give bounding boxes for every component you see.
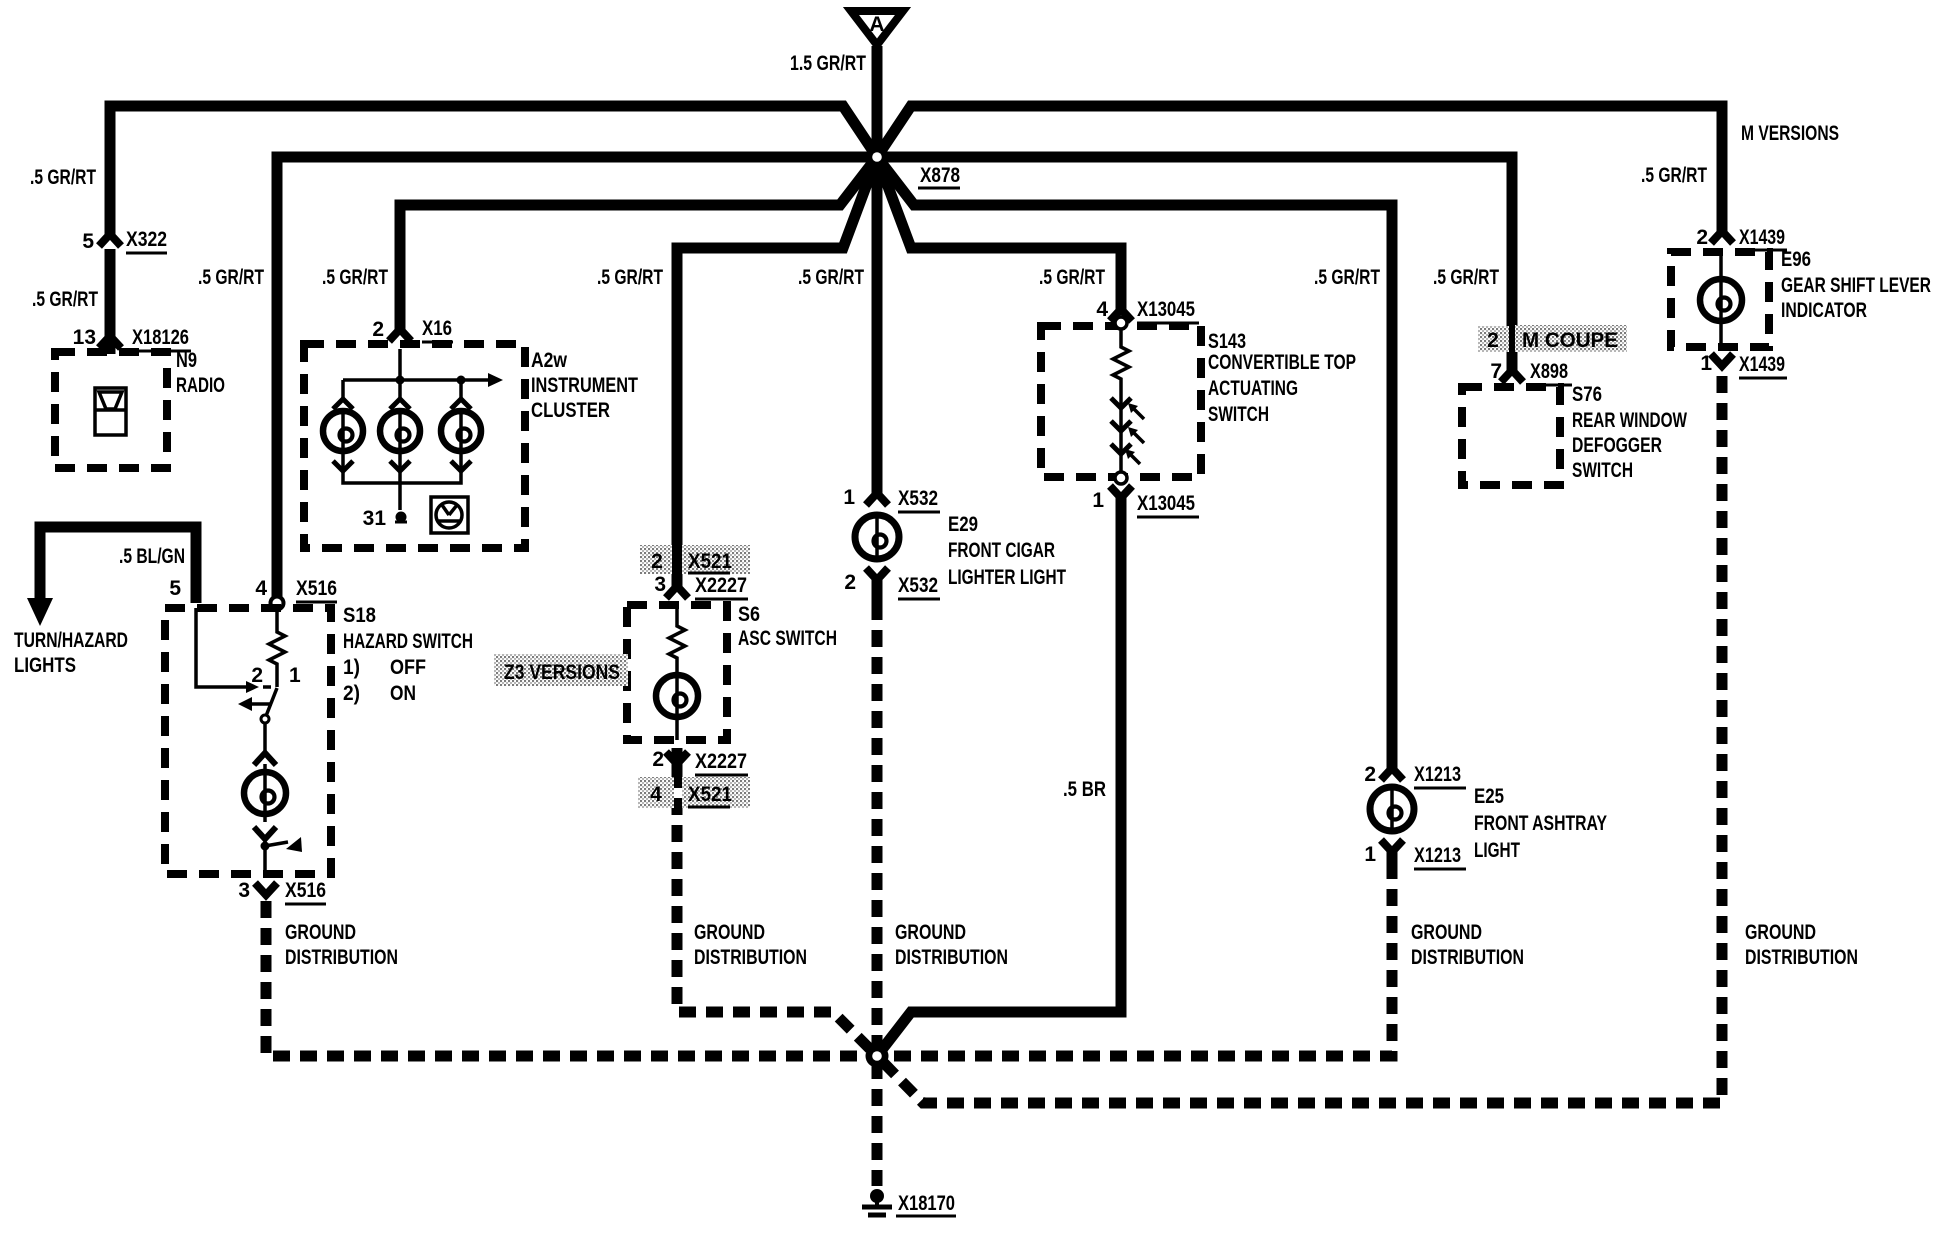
- svg-text:A: A: [869, 13, 884, 36]
- rear window defogger switch S76 dashed box: [1462, 387, 1560, 485]
- svg-text:2: 2: [844, 571, 856, 594]
- radio N9 dashed box: [55, 352, 167, 468]
- svg-text:X1213: X1213: [1414, 763, 1461, 786]
- connector pin 2 M COUPE (stippled): [1478, 325, 1627, 352]
- svg-text:DISTRIBUTION: DISTRIBUTION: [1411, 946, 1524, 969]
- svg-text:X16: X16: [422, 317, 452, 340]
- connector X521 pin 4 (stippled): [638, 777, 750, 808]
- svg-text:.5 GR/RT: .5 GR/RT: [322, 266, 388, 289]
- svg-text:ACTUATING: ACTUATING: [1208, 377, 1298, 400]
- connector X898 pin 7: [1490, 360, 1572, 385]
- svg-text:X521: X521: [688, 783, 732, 806]
- wire: E96 ground dashed down right side to bottom splice: [877, 376, 1722, 1103]
- bottom splice (ground distribution): [866, 1045, 889, 1068]
- svg-text:OFF: OFF: [390, 656, 426, 679]
- wire: bus y205 left from splice to instrument cluster X16 drop: [400, 157, 877, 331]
- svg-text:X1439: X1439: [1739, 226, 1785, 249]
- wire: bus y248 right from splice to S143 drop: [877, 157, 1121, 309]
- wire: bus y106 left from splice to N9 radio drop: [110, 106, 877, 237]
- svg-text:X516: X516: [285, 879, 326, 902]
- svg-text:X516: X516: [296, 577, 337, 600]
- connector X13045 pin 1: [1092, 486, 1199, 517]
- svg-text:4: 4: [1096, 298, 1108, 321]
- S18 pin 3 connector X516: [238, 879, 326, 904]
- splice X878: [866, 146, 961, 189]
- svg-text:GROUND: GROUND: [1411, 921, 1482, 944]
- svg-text:FRONT CIGAR: FRONT CIGAR: [948, 539, 1055, 562]
- svg-text:X13045: X13045: [1137, 492, 1195, 515]
- svg-text:.5 GR/RT: .5 GR/RT: [32, 288, 98, 311]
- svg-text:.5 BR: .5 BR: [1063, 778, 1106, 801]
- radio speaker icon: [95, 388, 126, 435]
- svg-text:X898: X898: [1530, 360, 1568, 383]
- svg-text:REAR WINDOW: REAR WINDOW: [1572, 409, 1687, 432]
- svg-text:1): 1): [343, 656, 360, 679]
- connector X1439 pin 1: [1700, 352, 1787, 378]
- svg-text:E25: E25: [1474, 785, 1504, 808]
- connector X1439 pin 2: [1696, 226, 1787, 250]
- svg-text:2): 2): [343, 682, 360, 705]
- svg-text:GROUND: GROUND: [285, 921, 356, 944]
- cluster lamp 3: [441, 399, 481, 471]
- S6 internal lamp: [656, 675, 698, 740]
- svg-text:E29: E29: [948, 513, 978, 536]
- svg-text:E96: E96: [1781, 248, 1811, 271]
- svg-text:.5 BL/GN: .5 BL/GN: [119, 545, 185, 568]
- S18 internal resistor: [269, 608, 285, 687]
- svg-text:CONVERTIBLE TOP: CONVERTIBLE TOP: [1208, 351, 1356, 374]
- S143 internal switch contacts with actuating arrows: [1111, 395, 1144, 475]
- svg-text:ON: ON: [390, 682, 416, 705]
- svg-text:GROUND: GROUND: [895, 921, 966, 944]
- convertible top switch S143 dashed box: [1041, 326, 1201, 477]
- wire: bus y248 left from splice to S6 drop: [677, 157, 877, 588]
- svg-text:ASC SWITCH: ASC SWITCH: [738, 627, 837, 650]
- ground X18170: [862, 1189, 956, 1216]
- S18 internal lamp: [244, 753, 286, 839]
- svg-text:X1213: X1213: [1414, 844, 1461, 867]
- svg-text:GEAR SHIFT LEVER: GEAR SHIFT LEVER: [1781, 274, 1931, 297]
- S143 internal resistor: [1113, 329, 1129, 395]
- ASC switch S6 dashed box: [627, 605, 727, 740]
- svg-text:1: 1: [289, 664, 301, 687]
- wire: bus y205 right from splice to E25 drop: [877, 157, 1392, 770]
- lamp E29 front cigar lighter light: [855, 512, 899, 562]
- connector X18126 pin 13: [73, 326, 191, 351]
- svg-text:3: 3: [238, 879, 250, 902]
- svg-text:SWITCH: SWITCH: [1208, 403, 1269, 426]
- svg-text:5: 5: [82, 230, 94, 253]
- E96 internal lamp: [1700, 252, 1742, 347]
- hazard switch S18 dashed box: [165, 608, 331, 874]
- connector X322 pin 5: [82, 228, 167, 253]
- label Z3 VERSIONS (stippled): [494, 654, 628, 686]
- wire: E29 feed from splice down to X532: [872, 157, 883, 495]
- svg-text:CLUSTER: CLUSTER: [531, 399, 610, 422]
- svg-text:GROUND: GROUND: [1745, 921, 1816, 944]
- connector X1213 pin 1: [1364, 840, 1466, 869]
- connector X1213 pin 2: [1364, 763, 1466, 788]
- svg-text:.5 GR/RT: .5 GR/RT: [1314, 266, 1380, 289]
- svg-text:HAZARD SWITCH: HAZARD SWITCH: [343, 630, 473, 653]
- svg-text:.5 GR/RT: .5 GR/RT: [798, 266, 864, 289]
- svg-text:S143: S143: [1208, 330, 1246, 353]
- svg-text:DISTRIBUTION: DISTRIBUTION: [1745, 946, 1858, 969]
- wire: S6 ground stub: [672, 748, 683, 772]
- svg-text:SWITCH: SWITCH: [1572, 459, 1633, 482]
- svg-text:DISTRIBUTION: DISTRIBUTION: [895, 946, 1008, 969]
- svg-text:TURN/HAZARD: TURN/HAZARD: [14, 629, 128, 652]
- svg-text:X532: X532: [898, 574, 938, 597]
- connector X13045 pin 4: [1096, 298, 1199, 323]
- svg-text:4: 4: [255, 577, 267, 600]
- svg-text:FRONT ASHTRAY: FRONT ASHTRAY: [1474, 812, 1607, 835]
- wire: turn/hazard lights feed .5 BL/GN: [40, 527, 196, 603]
- svg-text:S6: S6: [738, 603, 760, 626]
- svg-text:.5 GR/RT: .5 GR/RT: [597, 266, 663, 289]
- connector X16 pin 2: [372, 317, 453, 342]
- lamp E25 front ashtray light: [1370, 784, 1414, 834]
- svg-text:.5 GR/RT: .5 GR/RT: [1039, 266, 1105, 289]
- connector X521 pin 2 (stippled): [640, 545, 750, 574]
- svg-text:DISTRIBUTION: DISTRIBUTION: [285, 946, 398, 969]
- cluster clock icon: [431, 497, 468, 533]
- wire: bus y157 through splice, S18 drop left, S76 drop right: [277, 157, 1512, 598]
- gear shift lever indicator E96 dashed box: [1671, 252, 1769, 347]
- wire: S18 ground dashed + bottom bus to E25: [266, 867, 1392, 1056]
- svg-text:2: 2: [652, 748, 664, 771]
- wire: 1.5 GR/RT feed from A down to splice X878: [872, 46, 883, 157]
- svg-text:LIGHTER LIGHT: LIGHTER LIGHT: [948, 566, 1066, 589]
- svg-text:2: 2: [372, 318, 384, 341]
- svg-text:.5 GR/RT: .5 GR/RT: [1433, 266, 1499, 289]
- svg-text:RADIO: RADIO: [176, 374, 225, 397]
- svg-text:13: 13: [73, 326, 96, 349]
- svg-text:.5 GR/RT: .5 GR/RT: [30, 166, 96, 189]
- wire: S6 ground dashed down and to bottom splice: [677, 771, 877, 1056]
- svg-text:X1439: X1439: [1739, 353, 1785, 376]
- svg-text:LIGHT: LIGHT: [1474, 839, 1520, 862]
- svg-text:DISTRIBUTION: DISTRIBUTION: [694, 946, 807, 969]
- cluster lamp 1: [323, 399, 363, 471]
- svg-text:X322: X322: [126, 228, 167, 251]
- svg-text:5: 5: [169, 577, 181, 600]
- svg-text:X2227: X2227: [695, 750, 747, 773]
- power feed symbol A (triangle): [851, 11, 903, 45]
- S18 lamp housing arrow: [261, 836, 303, 874]
- svg-text:2: 2: [651, 550, 663, 573]
- svg-text:S76: S76: [1572, 383, 1602, 406]
- wire: E29 ground stub: [872, 580, 883, 604]
- svg-text:4: 4: [650, 783, 662, 806]
- connector X532 pin 2: [844, 568, 940, 599]
- svg-text:.5 GR/RT: .5 GR/RT: [198, 266, 264, 289]
- connector X2227 pin 2 (below): [652, 748, 748, 775]
- arrow to turn/hazard lights: [27, 598, 53, 626]
- svg-text:2: 2: [1487, 329, 1499, 352]
- svg-text:GROUND: GROUND: [694, 921, 765, 944]
- svg-text:DEFOGGER: DEFOGGER: [1572, 434, 1662, 457]
- svg-text:1.5 GR/RT: 1.5 GR/RT: [790, 52, 866, 75]
- svg-text:1: 1: [1364, 843, 1376, 866]
- svg-text:INSTRUMENT: INSTRUMENT: [531, 374, 638, 397]
- cluster internal feed wire and bus with arrow: [343, 349, 488, 510]
- svg-text:3: 3: [654, 573, 666, 596]
- svg-text:X13045: X13045: [1137, 298, 1195, 321]
- cluster pin 31: [363, 507, 407, 530]
- S6 internal resistor: [669, 605, 685, 676]
- instrument cluster A2w dashed box: [304, 344, 525, 548]
- svg-text:2: 2: [1364, 763, 1376, 786]
- svg-text:2: 2: [1696, 226, 1708, 249]
- S18 switch lever and actuator arrow: [238, 688, 277, 754]
- svg-text:2: 2: [251, 664, 263, 687]
- svg-text:INDICATOR: INDICATOR: [1781, 299, 1867, 322]
- wire: N9 drop between connectors X322 and X18126: [105, 249, 116, 354]
- svg-text:31: 31: [363, 507, 387, 530]
- cluster lamp 2: [380, 399, 420, 471]
- svg-text:X18126: X18126: [132, 326, 189, 349]
- svg-text:.5 GR/RT: .5 GR/RT: [1641, 164, 1707, 187]
- svg-text:N9: N9: [176, 349, 197, 372]
- svg-text:X2227: X2227: [695, 574, 747, 597]
- svg-text:M COUPE: M COUPE: [1522, 329, 1618, 352]
- svg-text:A2w: A2w: [531, 349, 568, 372]
- svg-text:Z3 VERSIONS: Z3 VERSIONS: [504, 661, 620, 684]
- svg-text:X878: X878: [920, 164, 960, 187]
- svg-text:S18: S18: [343, 604, 376, 627]
- connector X2227 pin 3: [654, 573, 748, 599]
- wire: E25 ground stub: [1387, 848, 1398, 868]
- svg-text:X532: X532: [898, 487, 938, 510]
- S18 internal contact 2 branch: [196, 608, 246, 687]
- svg-text:X521: X521: [688, 550, 732, 573]
- svg-text:1: 1: [843, 486, 855, 509]
- wire: E29 ground dashed through bottom splice to X18170: [872, 603, 883, 1186]
- wire: S143 .5 BR solid return to bottom splice: [877, 497, 1121, 1056]
- connector X532 pin 1: [843, 486, 940, 512]
- wire: bus y106 right from splice to E96 drop (M VERSIONS): [877, 106, 1722, 233]
- svg-text:M VERSIONS: M VERSIONS: [1741, 122, 1839, 145]
- svg-text:1: 1: [1092, 489, 1104, 512]
- svg-text:LIGHTS: LIGHTS: [14, 654, 76, 677]
- S18 pin 5 and 4, connector X516: [169, 577, 337, 610]
- svg-text:X18170: X18170: [898, 1192, 955, 1215]
